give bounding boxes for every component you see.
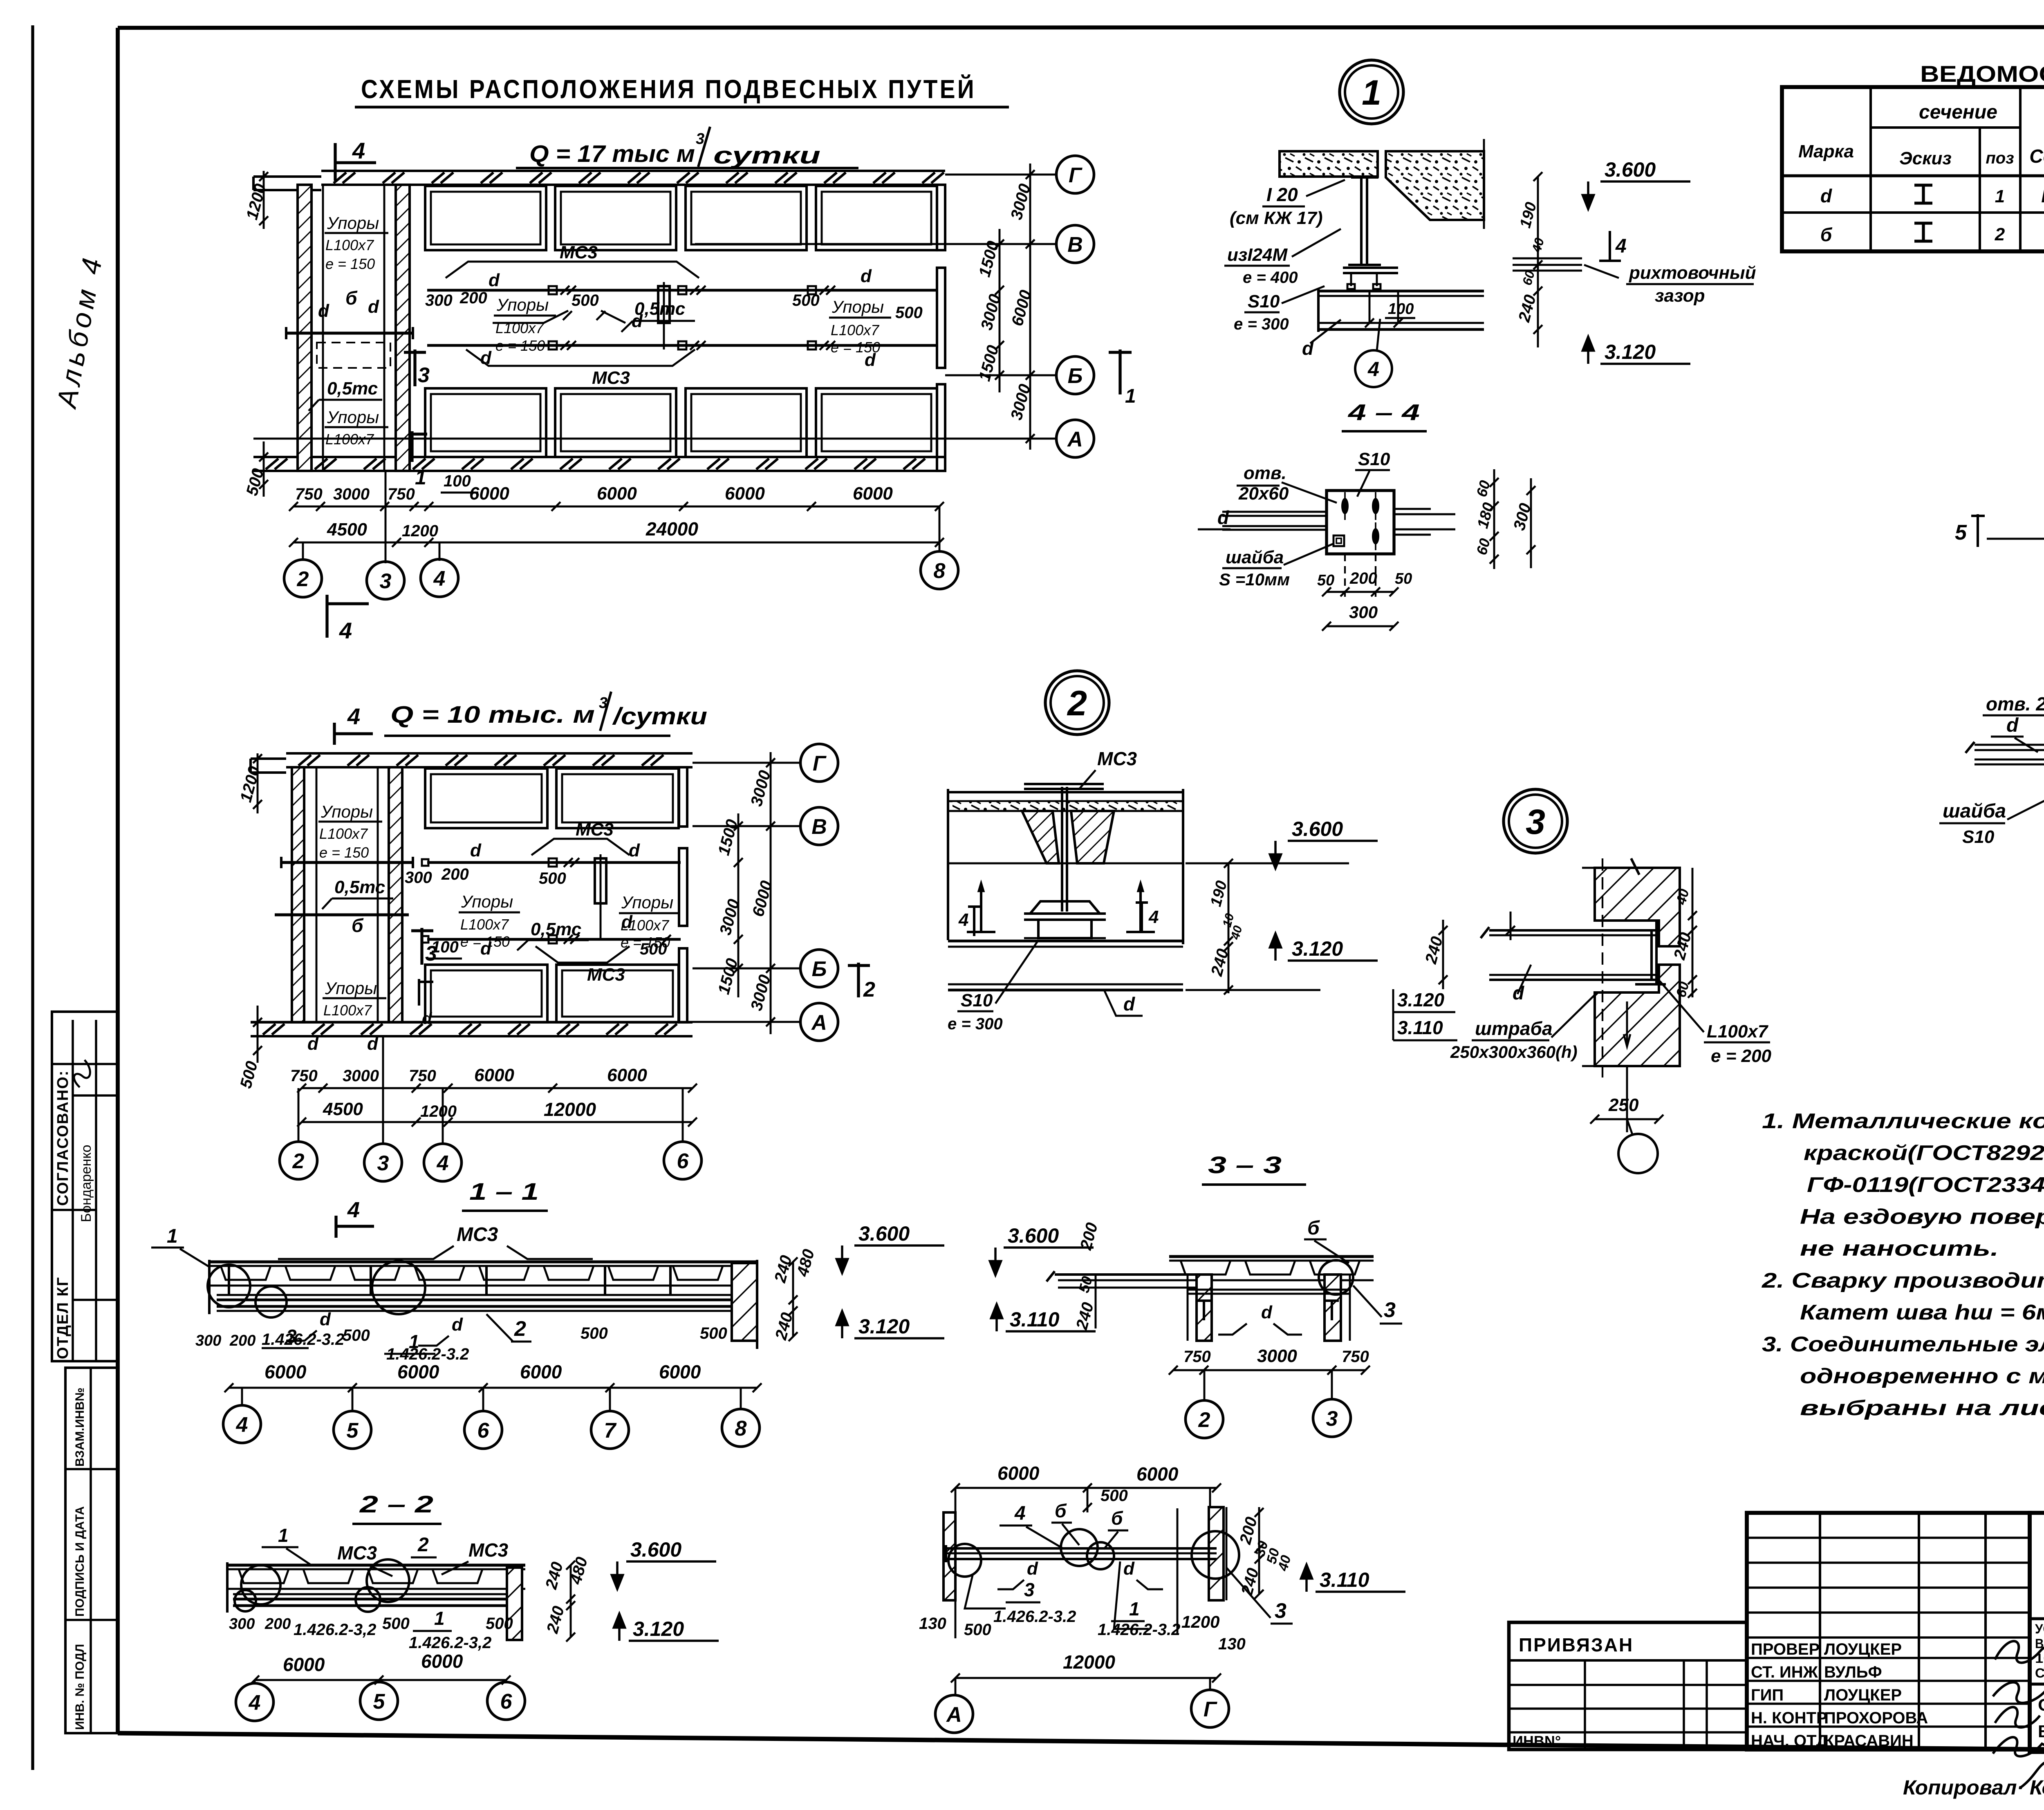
svg-text:2: 2 bbox=[1995, 224, 2005, 244]
plan1 grid circle B bbox=[1056, 356, 1094, 394]
detail 3 right dims bbox=[1692, 868, 1694, 997]
section 2-2 grid leaders bbox=[254, 1680, 256, 1683]
svg-text:Упоры: Упоры bbox=[325, 979, 377, 998]
svg-text:6000: 6000 bbox=[725, 484, 765, 504]
section 3-3 detail circle bbox=[1319, 1260, 1353, 1295]
svg-text:ПОДПИСЬ И ДАТА: ПОДПИСЬ И ДАТА bbox=[73, 1506, 87, 1617]
svg-text:d: d bbox=[452, 1315, 463, 1335]
svg-text:А: А bbox=[811, 1011, 827, 1035]
svg-text:4: 4 bbox=[1148, 907, 1159, 927]
title block signatures bbox=[1995, 1641, 2044, 1673]
svg-text:МС3: МС3 bbox=[576, 820, 614, 840]
svg-text:6000: 6000 bbox=[853, 484, 893, 504]
section 1-1 grid leaders bbox=[241, 1388, 243, 1405]
plan2 grid leaders bottom bbox=[298, 1088, 300, 1141]
plan1 bottom dim row2 bbox=[294, 542, 939, 544]
svg-text:Н. КОНТР: Н. КОНТР bbox=[1751, 1709, 1827, 1727]
detail 2 left edge bbox=[947, 789, 949, 940]
svg-text:L100х7: L100х7 bbox=[323, 1002, 372, 1019]
svg-text:d: d bbox=[368, 297, 379, 317]
svg-text:4: 4 bbox=[437, 1151, 449, 1175]
plan1 grid circle G bbox=[1056, 156, 1094, 193]
svg-text:(см КЖ 17): (см КЖ 17) bbox=[1230, 208, 1323, 228]
svg-text:А: А bbox=[1067, 428, 1083, 451]
detail 1 bolts bbox=[1350, 273, 1352, 286]
section 2-2 grid circles bbox=[236, 1683, 273, 1721]
svg-text:1.426.2-3.2: 1.426.2-3.2 bbox=[993, 1608, 1076, 1626]
svg-text:d: d bbox=[307, 1034, 319, 1054]
svg-text:3.120: 3.120 bbox=[858, 1315, 910, 1338]
svg-text:4: 4 bbox=[339, 618, 352, 643]
section 1-1 left end bbox=[208, 1260, 211, 1314]
svg-text:Упоры: Упоры bbox=[327, 213, 379, 233]
section 4-4 right wall bbox=[1209, 1507, 1224, 1600]
svg-text:500: 500 bbox=[964, 1621, 991, 1639]
svg-text:Q = 10 тыс. м: Q = 10 тыс. м bbox=[390, 701, 595, 728]
svg-text:8: 8 bbox=[934, 559, 946, 583]
svg-text:МС3: МС3 bbox=[587, 965, 625, 985]
svg-text:500: 500 bbox=[792, 291, 820, 309]
svg-text:d: d bbox=[470, 840, 482, 860]
svg-text:500: 500 bbox=[539, 869, 566, 887]
svg-text:4: 4 bbox=[347, 1198, 360, 1222]
svg-text:1: 1 bbox=[1129, 1598, 1140, 1620]
detail 4-4 dims right bbox=[1493, 469, 1495, 569]
detail 3 centerline wall bbox=[1602, 858, 1603, 1079]
svg-text:e = 150: e = 150 bbox=[831, 339, 880, 356]
svg-text:S10: S10 bbox=[961, 990, 993, 1010]
plan2 section mark 3 left bbox=[420, 928, 423, 965]
detail 2 rib trapezoids bbox=[1022, 811, 1059, 863]
plan2 window row top bbox=[425, 768, 547, 828]
plan1 section mark 4 top bbox=[335, 161, 376, 164]
svg-text:500: 500 bbox=[572, 291, 599, 309]
detail 3 bottom circle bbox=[1618, 1134, 1658, 1173]
svg-text:одновременно с монтажем пли: одновременно с монтажем плит покрытия и bbox=[1800, 1364, 2044, 1388]
svg-text:УСТАНОВКА ГЛУБОКОЙ ОЧИСТКИ СТО: УСТАНОВКА ГЛУБОКОЙ ОЧИСТКИ СТОЧНЫХ bbox=[2035, 1622, 2044, 1636]
plan2 rail top bbox=[427, 861, 681, 864]
svg-text:ВУЛЬФ: ВУЛЬФ bbox=[1824, 1663, 1882, 1681]
detail 4-4 beam lines right bbox=[1394, 508, 1431, 510]
detail 2 section marks 4 bbox=[973, 905, 975, 936]
svg-text:4: 4 bbox=[1014, 1503, 1026, 1524]
svg-text:500: 500 bbox=[700, 1324, 727, 1342]
svg-text:S10: S10 bbox=[1248, 291, 1280, 311]
svg-text:Катет шва hш = 6мм. Типы швов: Катет шва hш = 6мм. Типы швов Н1 иТ3 по … bbox=[1800, 1301, 2044, 1324]
plan2 rail bottom bbox=[427, 938, 681, 941]
title block sign grid bbox=[1747, 1513, 2030, 1750]
svg-text:500: 500 bbox=[580, 1324, 608, 1342]
svg-text:e = 300: e = 300 bbox=[948, 1015, 1003, 1033]
svg-text:Г: Г bbox=[813, 752, 827, 775]
svg-text:Упоры: Упоры bbox=[831, 297, 884, 316]
svg-text:750: 750 bbox=[295, 485, 323, 503]
svg-text:S10: S10 bbox=[1962, 827, 1995, 847]
svg-text:3.110: 3.110 bbox=[1010, 1308, 1060, 1331]
plan1 grid circle A bbox=[1056, 420, 1094, 457]
svg-text:0,5тс: 0,5тс bbox=[531, 919, 581, 939]
svg-text:МС3: МС3 bbox=[560, 242, 598, 262]
plan2 left wall hatched bbox=[292, 767, 304, 1022]
svg-text:d: d bbox=[422, 1010, 433, 1028]
svg-text:3.600: 3.600 bbox=[1008, 1224, 1059, 1247]
section 1-1 hangers bbox=[228, 1266, 230, 1295]
svg-text:Упоры: Упоры bbox=[320, 802, 373, 821]
svg-text:СОГЛАСОВАНО:: СОГЛАСОВАНО: bbox=[54, 1070, 72, 1206]
drawing frame border bbox=[118, 27, 2044, 28]
svg-text:шайба: шайба bbox=[1943, 800, 2006, 822]
svg-text:А: А bbox=[946, 1703, 962, 1727]
plan1 section mark 4 bottom bbox=[325, 595, 328, 638]
detail 1 callout circle 4 bbox=[1355, 350, 1392, 387]
svg-text:8: 8 bbox=[735, 1417, 747, 1440]
detail 1 hanger I-beam bbox=[1351, 176, 1378, 179]
svg-text:Упоры: Упоры bbox=[621, 893, 673, 912]
detail 3 bubble bbox=[1504, 789, 1567, 853]
svg-text:б: б bbox=[1055, 1500, 1067, 1521]
svg-text:3.120: 3.120 bbox=[1605, 340, 1656, 363]
plan1 rail top bbox=[427, 289, 938, 292]
svg-text:Упоры: Упоры bbox=[327, 408, 379, 427]
svg-text:250х300х360(h): 250х300х360(h) bbox=[1450, 1042, 1578, 1062]
svg-text:Б: Б bbox=[812, 957, 827, 981]
svg-text:4 – 4: 4 – 4 bbox=[1348, 399, 1420, 425]
svg-text:d: d bbox=[489, 270, 500, 290]
svg-text:Упоры: Упоры bbox=[496, 295, 549, 314]
svg-text:Г: Г bbox=[1204, 1698, 1217, 1721]
svg-text:1.426.2-3,2: 1.426.2-3,2 bbox=[294, 1621, 376, 1639]
svg-text:3: 3 bbox=[1384, 1298, 1396, 1322]
plan1 rail bottom bbox=[427, 344, 938, 347]
svg-text:d: d bbox=[1027, 1559, 1038, 1579]
svg-text:2 – 2: 2 – 2 bbox=[359, 1491, 433, 1518]
svg-text:0,5тс: 0,5тс bbox=[334, 877, 385, 897]
svg-text:МС3: МС3 bbox=[457, 1224, 498, 1245]
svg-text:4: 4 bbox=[1615, 235, 1627, 257]
plan2 grid circles right bbox=[800, 744, 838, 782]
svg-text:Упоры: Упоры bbox=[461, 892, 513, 911]
svg-text:12000: 12000 bbox=[1063, 1651, 1115, 1673]
detail 2 top plate bbox=[1024, 788, 1104, 790]
svg-text:зазор: зазор bbox=[1655, 286, 1705, 306]
plan2 right dim chains bbox=[737, 813, 740, 997]
section 4-4 beam bbox=[946, 1547, 1217, 1550]
svg-text:d: d bbox=[367, 1034, 379, 1054]
svg-text:d: d bbox=[320, 1309, 331, 1329]
svg-text:d: d bbox=[2006, 715, 2019, 736]
plan2 window row bottom bbox=[425, 965, 547, 1022]
svg-text:3.120: 3.120 bbox=[1292, 937, 1343, 960]
svg-text:сечение: сечение bbox=[1919, 101, 1997, 123]
svg-text:6000: 6000 bbox=[997, 1463, 1040, 1484]
detail 1 rail inner detail bbox=[1369, 291, 1371, 323]
plan1 dashed box 0.5tc bbox=[317, 343, 390, 368]
svg-text:ИНВ. № ПОДЛ: ИНВ. № ПОДЛ bbox=[73, 1644, 87, 1730]
plan1 window row top bbox=[425, 186, 546, 250]
sidebar signature bbox=[72, 1059, 92, 1089]
sidebar stamp upper box bbox=[52, 1012, 118, 1361]
plan1 grid leaders bottom bbox=[302, 542, 304, 559]
svg-text:1: 1 bbox=[1362, 73, 1381, 112]
svg-text:1.426.2-3.2: 1.426.2-3.2 bbox=[1098, 1621, 1180, 1639]
svg-text:поз: поз bbox=[1986, 149, 2014, 167]
svg-text:L100х7: L100х7 bbox=[460, 916, 509, 933]
svg-text:6: 6 bbox=[477, 1419, 490, 1443]
svg-text:6000: 6000 bbox=[597, 484, 637, 504]
svg-text:1: 1 bbox=[415, 466, 426, 489]
svg-text:200: 200 bbox=[441, 865, 469, 883]
detail 1 slab left bbox=[1280, 151, 1378, 177]
svg-text:б: б bbox=[1820, 224, 1833, 245]
plan2 MC3 callouts bbox=[531, 839, 630, 855]
svg-text:0,5тс: 0,5тс bbox=[634, 299, 685, 319]
detail 1 slab right haunch bbox=[1386, 151, 1484, 220]
element table grid bbox=[1782, 87, 2044, 251]
svg-text:d: d bbox=[1217, 507, 1229, 528]
svg-text:300: 300 bbox=[425, 291, 453, 309]
section 1-1 grid circles bbox=[223, 1405, 261, 1443]
svg-text:ПРОХОРОВА: ПРОХОРОВА bbox=[1824, 1709, 1928, 1727]
svg-text:6000: 6000 bbox=[264, 1361, 307, 1382]
svg-text:6000: 6000 bbox=[283, 1654, 325, 1675]
svg-text:d: d bbox=[1123, 1559, 1135, 1579]
detail 2 rod bbox=[1061, 787, 1063, 912]
svg-text:e = 150: e = 150 bbox=[495, 337, 545, 354]
svg-text:1: 1 bbox=[1125, 385, 1136, 407]
svg-text:/сутки: /сутки bbox=[612, 703, 707, 730]
svg-text:3: 3 bbox=[1024, 1579, 1035, 1600]
plan1 grid circle V bbox=[1056, 225, 1094, 263]
plan2 grid circle 4c bbox=[424, 1144, 462, 1181]
svg-text:3: 3 bbox=[1526, 802, 1545, 842]
svg-text:шайба: шайба bbox=[1226, 547, 1284, 567]
plan2 building walls bbox=[286, 752, 693, 755]
svg-text:S =10мм: S =10мм bbox=[1219, 570, 1290, 589]
plan1 left dim 1200 bbox=[263, 171, 265, 229]
section 3-3 grid leaders bbox=[1204, 1370, 1206, 1400]
svg-text:L100х7: L100х7 bbox=[831, 322, 880, 338]
section 4-4 left wall bbox=[944, 1512, 955, 1600]
section 5-5 beam from left bbox=[1975, 744, 2044, 746]
plan1 section mark 1 left bbox=[410, 431, 413, 462]
plan1 bottom dim row1 bbox=[294, 506, 939, 508]
svg-text:3: 3 bbox=[418, 363, 430, 387]
svg-text:L100х7: L100х7 bbox=[319, 825, 368, 842]
svg-text:2. Сварку производить электр: 2. Сварку производить электродами Э-42 Г… bbox=[1762, 1269, 2044, 1293]
svg-text:ВЗАМ.ИНВ№: ВЗАМ.ИНВ№ bbox=[73, 1388, 87, 1467]
svg-text:6000: 6000 bbox=[397, 1361, 439, 1382]
detail 2 slab bbox=[948, 791, 1183, 793]
svg-text:1.426.2-3,2: 1.426.2-3,2 bbox=[409, 1634, 491, 1652]
svg-text:ЛОУЦКЕР: ЛОУЦКЕР bbox=[1824, 1686, 1902, 1704]
svg-text:ОТДЕЛ КГ: ОТДЕЛ КГ bbox=[54, 1277, 72, 1359]
plan2 section marks small left bbox=[418, 979, 420, 1006]
svg-text:2: 2 bbox=[863, 978, 875, 1001]
plan1 right dim chain outer bbox=[1029, 164, 1031, 450]
section 4-4 grid circle A bbox=[935, 1695, 973, 1733]
svg-text:50: 50 bbox=[1395, 570, 1412, 587]
svg-text:МС3: МС3 bbox=[337, 1542, 377, 1564]
detail 1 rail channel bbox=[1318, 290, 1484, 293]
svg-text:1 – 1: 1 – 1 bbox=[469, 1178, 539, 1205]
svg-text:отв.: отв. bbox=[1244, 463, 1286, 483]
detail 3 arrow down bbox=[1626, 1001, 1628, 1046]
svg-text:4: 4 bbox=[249, 1691, 261, 1715]
svg-text:2: 2 bbox=[292, 1149, 305, 1173]
svg-text:ГИП: ГИП bbox=[1751, 1686, 1784, 1704]
svg-text:Эскиз: Эскиз bbox=[1899, 148, 1952, 168]
svg-text:1. Металлические конструкции: 1. Металлические конструкции окрасить ма… bbox=[1762, 1109, 2044, 1133]
svg-text:Бондаренко: Бондаренко bbox=[78, 1145, 94, 1222]
svg-text:3. Соединительные элементы М: 3. Соединительные элементы МС3 устанавли… bbox=[1762, 1333, 2044, 1356]
svg-text:200: 200 bbox=[264, 1615, 291, 1633]
svg-text:6000: 6000 bbox=[659, 1361, 701, 1382]
section 3-3 roof band bbox=[1169, 1255, 1374, 1258]
svg-text:d: d bbox=[1123, 993, 1135, 1015]
svg-text:1200: 1200 bbox=[1181, 1612, 1219, 1631]
svg-text:e = 300: e = 300 bbox=[1234, 315, 1289, 333]
svg-text:300: 300 bbox=[195, 1332, 221, 1349]
svg-text:4500: 4500 bbox=[327, 520, 367, 540]
detail 4-4 washer bbox=[1334, 535, 1344, 546]
svg-text:750: 750 bbox=[290, 1067, 318, 1085]
svg-text:500: 500 bbox=[343, 1326, 370, 1344]
svg-text:4: 4 bbox=[352, 138, 365, 164]
section 2-2 roof band bbox=[227, 1564, 525, 1566]
plan1 grid circle 3 bbox=[367, 562, 404, 599]
svg-text:5: 5 bbox=[347, 1419, 359, 1443]
section 1-1 right wall bbox=[732, 1263, 757, 1341]
detail 2 anchor bolts bbox=[980, 891, 982, 932]
detail 2 clamp plate bbox=[1030, 901, 1100, 914]
svg-text:ПРИВЯЗАН: ПРИВЯЗАН bbox=[1519, 1634, 1634, 1655]
title block right box bbox=[2030, 1513, 2044, 1752]
section 3-3 cantilever beam bbox=[1055, 1273, 1198, 1276]
svg-text:не наносить.: не наносить. bbox=[1800, 1237, 1999, 1261]
section 4-4 detail circles bbox=[948, 1544, 981, 1577]
svg-text:d: d bbox=[861, 266, 872, 286]
svg-text:В: В bbox=[1067, 233, 1083, 257]
plan2 right wall bbox=[679, 767, 687, 827]
svg-text:Б: Б bbox=[1068, 364, 1083, 388]
svg-text:3000: 3000 bbox=[1257, 1346, 1297, 1366]
svg-text:3: 3 bbox=[380, 569, 392, 593]
svg-text:3: 3 bbox=[425, 942, 437, 965]
svg-text:1: 1 bbox=[1995, 186, 2005, 206]
svg-text:НАЧ. ОТД: НАЧ. ОТД bbox=[1751, 1732, 1828, 1750]
section 1-1 mark4 bbox=[336, 1225, 374, 1228]
svg-text:СХЕМЫ РАСПОЛОЖЕНИЯ ПОДВЕСНЫХ: СХЕМЫ РАСПОЛОЖЕНИЯ ПОДВЕСНЫХ ПУТЕЙ bbox=[361, 74, 976, 104]
svg-text:ВЕДОМОСТЬ ЭЛЕМЕНТОВ: ВЕДОМОСТЬ ЭЛЕМЕНТОВ bbox=[1920, 61, 2044, 87]
svg-text:МС3: МС3 bbox=[468, 1539, 509, 1561]
svg-text:750: 750 bbox=[388, 485, 415, 503]
svg-text:e = 150: e = 150 bbox=[325, 255, 375, 272]
svg-text:сутки: сутки bbox=[713, 142, 820, 169]
detail 4-4 holes bbox=[1341, 498, 1349, 514]
svg-text:6000: 6000 bbox=[1136, 1463, 1179, 1485]
section 3-3 rails bbox=[1188, 1289, 1350, 1291]
svg-text:500: 500 bbox=[486, 1615, 513, 1633]
svg-text:I 20: I 20 bbox=[1266, 184, 1298, 205]
plan1 left dim 500 bbox=[263, 441, 265, 497]
svg-text:ПРОВЕР: ПРОВЕР bbox=[1751, 1640, 1820, 1658]
svg-text:4500: 4500 bbox=[323, 1099, 363, 1119]
svg-text:e = 200: e = 200 bbox=[1711, 1046, 1772, 1066]
svg-text:4: 4 bbox=[1367, 358, 1379, 381]
plan2 left dims bbox=[257, 753, 259, 813]
svg-text:СТОЧНЫХ ВОД НА ФИЛЬТРАЦИЮ: СТОЧНЫХ ВОД НА ФИЛЬТРАЦИЮ bbox=[2035, 1666, 2044, 1680]
svg-text:выбраны на листе КЖ-17: выбраны на листе КЖ-17 bbox=[1800, 1396, 2044, 1420]
svg-text:4: 4 bbox=[433, 567, 446, 591]
svg-text:6000: 6000 bbox=[520, 1361, 562, 1382]
svg-text:d: d bbox=[1820, 185, 1832, 206]
svg-text:Г: Г bbox=[1069, 164, 1083, 187]
svg-text:100: 100 bbox=[1388, 300, 1414, 318]
svg-text:3.110: 3.110 bbox=[1320, 1568, 1369, 1591]
section 2-2 right wall bbox=[507, 1568, 522, 1640]
svg-text:КРАСАВИН: КРАСАВИН bbox=[1824, 1732, 1914, 1750]
section 3-3 grid circles bbox=[1186, 1400, 1223, 1438]
svg-text:3: 3 bbox=[1326, 1407, 1338, 1431]
detail 1 cut mark 4 right bbox=[1609, 231, 1611, 262]
plan2 bottom dim row1 bbox=[302, 1087, 693, 1089]
svg-text:4: 4 bbox=[958, 910, 968, 930]
section 2-2 detail circles bbox=[241, 1565, 280, 1604]
svg-text:2: 2 bbox=[1067, 684, 1087, 723]
svg-text:300: 300 bbox=[229, 1615, 255, 1633]
plan2 grid circle 6 bbox=[664, 1142, 702, 1179]
svg-text:L100х7: L100х7 bbox=[325, 237, 374, 253]
svg-text:130: 130 bbox=[919, 1615, 946, 1633]
svg-text:L100х7: L100х7 bbox=[1707, 1021, 1769, 1042]
svg-text:6000: 6000 bbox=[607, 1065, 647, 1085]
svg-text:200: 200 bbox=[459, 289, 487, 307]
svg-text:5: 5 bbox=[373, 1690, 385, 1714]
svg-text:риxтовочный: риxтовочный bbox=[1629, 263, 1756, 283]
svg-text:ИНВN°: ИНВN° bbox=[1513, 1733, 1561, 1750]
svg-text:4: 4 bbox=[236, 1413, 248, 1437]
svg-text:L100х7: L100х7 bbox=[621, 917, 670, 934]
detail 4-4 plate bbox=[1327, 491, 1394, 554]
svg-text:отв. 20х60: отв. 20х60 bbox=[1986, 693, 2044, 715]
svg-text:б: б bbox=[352, 915, 364, 936]
svg-text:б: б bbox=[1111, 1508, 1123, 1529]
plan1 grid circle 2 bbox=[284, 560, 322, 597]
plan2 I-beams in left room bbox=[281, 861, 413, 864]
svg-text:В: В bbox=[811, 815, 827, 839]
plan1 building walls bbox=[321, 170, 945, 172]
svg-text:200: 200 bbox=[1349, 569, 1377, 587]
detail 2 bottom beam bbox=[948, 940, 1183, 943]
svg-text:d: d bbox=[1261, 1302, 1273, 1322]
svg-text:100: 100 bbox=[444, 472, 471, 490]
svg-text:5: 5 bbox=[1955, 521, 1967, 544]
svg-text:3.600: 3.600 bbox=[630, 1538, 681, 1561]
svg-text:МС3: МС3 bbox=[592, 368, 630, 388]
svg-text:6: 6 bbox=[500, 1690, 513, 1714]
plan2 bottom dim row2 bbox=[302, 1121, 693, 1123]
plan2 right grid lines bbox=[693, 762, 801, 764]
svg-text:3.120: 3.120 bbox=[633, 1617, 684, 1640]
plan1 I-beam in left room bbox=[286, 332, 413, 334]
svg-text:2: 2 bbox=[297, 567, 309, 591]
plan1 inner wall hatched bbox=[396, 185, 410, 471]
plan1 section cut 1 right bbox=[1118, 349, 1121, 394]
svg-text:2: 2 bbox=[1198, 1408, 1210, 1432]
svg-text:d: d bbox=[480, 348, 492, 368]
plan2 center connector bbox=[595, 858, 606, 903]
svg-text:Марка: Марка bbox=[1798, 141, 1854, 161]
